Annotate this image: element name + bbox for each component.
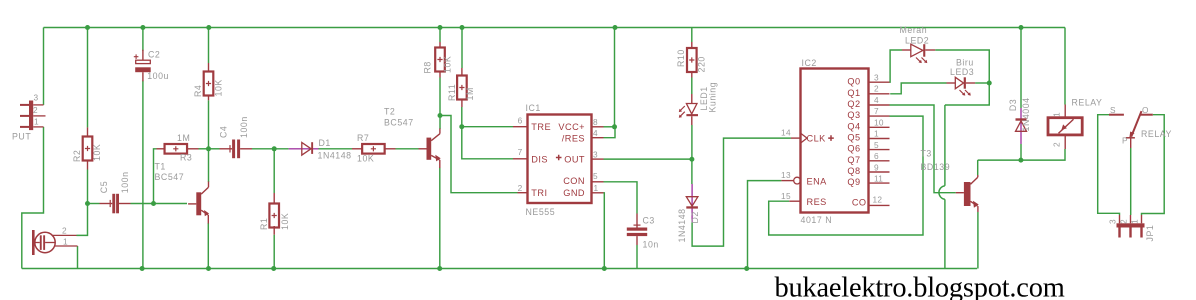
label O (contact) [1142,105,1149,115]
value 10n (C3) [643,240,659,250]
svg-text:bukaelektro.blogspot.com: bukaelektro.blogspot.com [775,273,1065,300]
svg-text:D2: D2 [690,211,700,223]
svg-text:Biru: Biru [956,58,974,68]
svg-text:14: 14 [781,128,791,138]
wire +V node up to rail [614,28,616,127]
pin 11 (IC2 Q9) [874,174,883,184]
transistor T1 BC547 [188,182,209,224]
svg-text:DIS: DIS [531,155,548,165]
IC1 pin name GND [563,188,585,198]
resistor R3 [165,144,188,154]
wire node down to IC1 pin 7 [462,127,513,159]
wire node to IC1 pin 6 [462,126,513,128]
IC2 pin name CLK [807,134,834,144]
junction at (141.6,268) [140,266,145,271]
svg-text:Merah: Merah [900,25,928,35]
IC1 pin name TRE [531,122,551,132]
wire node up to R3 left [154,149,157,204]
svg-text:1N4148: 1N4148 [318,151,352,161]
label IC1 [526,103,541,113]
resistor R4 leads [208,63,210,100]
wire relay contact P to JP1 pin 2 [1130,148,1132,215]
svg-text:8: 8 [593,117,598,127]
value 1N4004 (D3) [1021,97,1031,131]
junction at (208,148.3) [206,146,211,151]
capacitor C4 100n [220,140,253,159]
svg-text:100n: 100n [120,171,130,193]
resistor R2 leads [87,127,89,169]
junction at (691.4,158.75) [689,157,694,162]
pin 3 (PUT) [34,93,39,103]
wire IC2 pin 15 RES to Q3 pin 7 [769,116,923,235]
svg-text:7: 7 [518,147,523,157]
svg-text:PUT: PUT [12,132,31,142]
pin 9 (IC2 Q8) [874,163,879,173]
svg-text:R10: R10 [676,49,686,67]
pin 7 (IC2 Q3) [874,106,879,116]
svg-text:6: 6 [518,116,523,126]
svg-text:R2: R2 [72,150,82,162]
watermark bukaelektro.blogspot.com [775,273,1065,300]
value 10K (R8) [443,56,453,73]
wire rail end down to relay pin 1 [1064,28,1066,105]
value 100n (C4) [239,116,249,138]
label D1 [319,138,331,148]
IC2 pin stubs right [869,82,890,205]
label C2 [148,50,160,60]
IC2 pin names Q0-Q9 [847,77,860,187]
wire T1 collector riser [208,149,210,182]
diode D2 1N4148 [686,184,698,222]
junction at (439.2,268) [437,266,442,271]
diode D1 1N4148 [289,142,319,155]
junction at (208,268) [206,266,211,271]
junction at (461.5,27) [460,25,465,30]
label R11 [447,84,457,101]
IC2 ENA bubble [794,177,801,184]
svg-text:Q9: Q9 [847,177,860,187]
pin 5 (IC2 Q6) [874,140,879,150]
capacitor C2 100u electrolytic [134,50,151,82]
IC2 pin name RES [807,197,827,207]
svg-text:3: 3 [593,150,598,160]
label P (contact) [1122,136,1128,146]
svg-text:R8: R8 [423,61,433,73]
label R4 [193,85,203,97]
svg-text:7: 7 [874,106,879,116]
resistor R10 leads [691,42,693,78]
pin 15 (IC2) [781,191,791,201]
junction at (1020.5,27) [1019,25,1024,30]
diode D3 1N4004 [1016,108,1027,144]
junction at (603.8,268) [602,266,607,271]
IC1 pin name DIS [531,155,548,165]
pin 8 (IC1) [593,117,598,127]
wire IC2 pin 13 ENA to ground rail [748,181,782,269]
svg-text:Q2: Q2 [847,99,860,109]
svg-text:S: S [1110,105,1116,115]
wire R2 top (rail to R2) [87,28,89,128]
svg-text:9: 9 [874,163,879,173]
value Merah (LED2) [900,25,928,35]
pin 10 (IC2 Q4) [874,118,884,128]
svg-text:BC547: BC547 [384,118,414,128]
svg-text:Q0: Q0 [847,77,860,87]
pin 3 (JP1) [1108,219,1118,224]
value BD139 (T3) [921,162,951,172]
wire node down to R1 top [273,149,275,193]
wire T1 emitter to ground rail [207,223,209,269]
pin 13 (IC2) [781,170,791,180]
wire LED ground column to rail (with hop over T3 base) [944,105,946,186]
wire C3 bottom to ground rail [636,245,638,269]
resistor R4 [204,72,214,96]
op-amp timer IC1 NE555 box [528,115,592,204]
svg-text:220: 220 [697,56,707,72]
wire T3 collector node to relay pin 2 [978,149,1065,160]
svg-text:CLK: CLK [807,134,827,144]
svg-text:O: O [1142,105,1149,115]
wire LED3 cathode to node [975,82,989,84]
pin 3 (IC1) [593,150,598,160]
pin 3 (IC2 Q0) [874,73,879,83]
svg-text:Q7: Q7 [847,155,860,165]
junction at (988.75,82.5) [987,81,992,86]
value 100n (C5) [120,171,130,193]
value BC547 (T1) [155,172,185,182]
value 10K (R7) [357,154,374,164]
svg-text:10: 10 [874,118,884,128]
wire LED2 cathode down to LED ground node [935,50,989,83]
wire IC1 pin 3 OUT to LED node [604,158,692,160]
pin 2 (mic) [62,226,67,236]
pin 5 (IC1) [593,171,598,181]
label D2 [690,211,700,223]
value 4017N (IC2) [801,215,833,225]
wire LED1 cathode to OUT node [691,125,693,159]
wire R11 top (rail down) [461,28,463,69]
label C3 [643,216,655,226]
label R8 [423,61,433,73]
label T2 [384,107,395,117]
svg-text:Q8: Q8 [847,166,860,176]
label PUT [12,132,31,142]
capacitor C3 10n [627,214,647,246]
wire C4 right to D1 node [252,148,289,150]
label R2 [72,150,82,162]
wire relay contact O to JP1 pin 1 [1142,115,1165,215]
svg-text:15: 15 [781,191,791,201]
junction at (614.5,27) [613,25,618,30]
label R7 [357,133,369,143]
svg-text:R7: R7 [357,133,369,143]
label LED3 [950,67,974,77]
label R1 [259,218,269,230]
pin 6 (IC2 Q7) [874,151,879,161]
svg-text:Q1: Q1 [847,88,860,98]
svg-text:1: 1 [874,129,879,139]
svg-text:JP1: JP1 [1145,225,1155,242]
resistor R7 [362,144,385,154]
pin 1 (IC1) [594,183,599,193]
svg-text:1: 1 [1130,219,1140,224]
label C5 [99,181,109,193]
wire T3 collector riser [977,160,979,175]
label LED1 [699,86,709,110]
svg-text:ENA: ENA [807,177,828,187]
pin 1 (relay coil) [1052,112,1062,117]
IC2 pin name ENA [807,177,828,187]
wire left rail corner down to PUT pin 3 [43,28,45,105]
svg-text:5: 5 [874,140,879,150]
IC2 pin stubs left [781,138,800,201]
resistor R3 leads [157,148,199,150]
value 1M (R11) [465,87,475,100]
wire IC1 pin 4 up to +V node [604,127,616,138]
wire rail junction down to D3 [1020,28,1022,109]
svg-text:GND: GND [563,188,585,198]
LED2 Merah [902,44,935,63]
wire IC1 pin 5 to C3 [604,182,638,214]
wire T3 emitter to ground rail end [977,212,979,269]
pin 2 (PUT) [33,105,38,115]
wire IC2 pin 2 Q1 to LED3 [890,83,946,94]
svg-text:VCC+: VCC+ [558,122,585,132]
resistor R8 [435,48,445,72]
svg-text:10K: 10K [92,144,102,161]
wire D2 cathode to IC2 CLK pin 14 [692,138,791,246]
svg-text:1: 1 [1052,112,1062,117]
transistor T2 BC547 [419,129,441,169]
junction at (461.3,126.2) [459,124,464,129]
wire node to mic pin 2 [77,204,88,236]
svg-text:5: 5 [593,171,598,181]
svg-text:4: 4 [593,128,598,138]
wire IC1 pin 1 GND down to rail [603,193,606,269]
junction at (153,203) [151,201,156,206]
wire relay contact S to JP1 pin 3 [1098,115,1120,215]
svg-text:3: 3 [1108,219,1118,224]
svg-text:CO: CO [852,198,867,208]
IC1 pin name VCC+ [558,122,585,132]
svg-text:IC2: IC2 [802,58,817,68]
junction at (439.5,115) [438,113,443,118]
svg-text:1M: 1M [465,87,475,100]
svg-text:10K: 10K [280,213,290,230]
pin 4 (IC1) [593,128,598,138]
junction at (746.2,268) [744,266,749,271]
svg-text:C3: C3 [643,216,655,226]
svg-text:3: 3 [34,93,39,103]
IC1 origin cross [556,155,562,161]
svg-text:T2: T2 [384,107,395,117]
svg-text:IC1: IC1 [526,103,541,113]
svg-text:1N4004: 1N4004 [1021,97,1031,131]
value 220 (R10) [697,56,707,72]
svg-text:10n: 10n [643,240,659,250]
label D3 [1008,99,1018,111]
svg-text:1M: 1M [177,133,190,143]
pin 14 (IC2) [781,128,791,138]
label LED2 [905,36,929,46]
pin 2 (relay coil) [1052,142,1062,147]
svg-text:C2: C2 [148,50,160,60]
junction at (614,126.3) [612,124,617,129]
svg-text:Q3: Q3 [847,110,860,120]
transistor T3 BD139 [956,175,979,212]
IC1 pin name TRI [531,188,547,198]
wire PUT pin 1 down and left to ground rail [22,127,44,269]
pin 2 (JP1) [1119,219,1129,224]
svg-text:Q6: Q6 [847,144,860,154]
svg-text:100n: 100n [239,116,249,138]
junction at (87,203) [85,201,90,206]
pin 1 (mic) [63,237,68,247]
wire R1 bottom to ground rail [273,235,275,269]
wire bottom ground rail [22,268,977,270]
svg-text:/RES: /RES [562,134,585,144]
resistor R1 leads [273,193,275,235]
svg-text:6: 6 [874,151,879,161]
svg-text:TRI: TRI [531,188,547,198]
wire node to C4 left [209,148,220,150]
junction at (87,27) [85,25,90,30]
resistor R1 [269,204,279,228]
svg-text:R1: R1 [259,218,269,230]
svg-text:2: 2 [874,84,879,94]
junction at (142.4,27) [140,25,145,30]
svg-text:D1: D1 [319,138,331,148]
svg-text:11: 11 [874,174,883,184]
wire IC1 pin 8 to +V node [604,126,615,128]
label C4 [219,126,229,138]
wire R2 bottom to node [87,170,89,204]
LED3 Biru [947,77,976,95]
label R3 [180,153,192,163]
pin 4 (IC2 Q2) [874,95,879,105]
value 100u (C2) [147,71,169,81]
svg-text:C4: C4 [219,126,229,138]
svg-text:RELAY: RELAY [1072,97,1103,107]
svg-text:2: 2 [62,226,67,236]
resistor R7 leads [352,148,396,150]
svg-text:4: 4 [874,95,879,105]
label T1 [155,162,166,172]
junction at (1020.4,159.6) [1018,158,1023,163]
wire R10 top (rail down) [691,28,693,43]
pin 1 (JP1) [1130,219,1140,224]
svg-text:T3: T3 [921,149,932,159]
junction at (273.7,148.3) [272,146,277,151]
svg-text:TRE: TRE [531,122,551,132]
wire D3 anode to collector node [1020,144,1022,160]
label S (contact) [1110,105,1116,115]
svg-text:D3: D3 [1008,99,1018,111]
svg-text:OUT: OUT [564,155,585,165]
resistor R11 [457,76,467,100]
wire C2 bottom to ground rail [142,81,144,269]
value 10K (R1) [280,213,290,230]
wire R10 bottom to LED1 [691,78,693,95]
value Biru (LED3) [956,58,974,68]
wire T2 emitter to ground rail [439,168,441,269]
pin 2 (IC1) [518,183,523,193]
svg-text:RES: RES [807,197,827,207]
value 10K (R2) [92,144,102,161]
IC1 pin stubs [513,127,604,193]
wire R7 right to T2 base [396,148,419,150]
wire IC2 pin 4 Q2 to T3 base [890,105,956,193]
junction at (273.2,268) [271,266,276,271]
pin 1 (PUT) [34,117,39,127]
svg-text:Q4: Q4 [847,121,860,131]
svg-text:Kuning: Kuning [708,82,718,113]
wire T2 collector riser [439,116,441,130]
svg-text:R4: R4 [193,85,203,97]
resistor R11 leads [461,68,463,107]
wire trigger net: node to IC1 pin 2 [440,116,518,193]
pin 12 (IC2 CO) [873,195,883,205]
svg-text:LED3: LED3 [950,67,974,77]
svg-text:Q5: Q5 [847,132,860,142]
svg-text:2: 2 [518,183,523,193]
svg-text:13: 13 [781,170,791,180]
IC1 pin name OUT [564,155,585,165]
wire top +V rail [44,27,1066,29]
wire R4 top (rail down) [208,28,210,64]
IC2 pin name CO [852,198,867,208]
svg-text:R11: R11 [447,84,457,101]
pin 6 (IC1) [518,116,523,126]
wire R4 bottom to node [208,100,210,149]
svg-text:3: 3 [874,73,879,83]
relay contact switch [1109,111,1153,148]
wire R3 right to node [199,148,209,150]
value NE555 (IC1) [526,207,556,217]
junction at (208.3,27) [206,25,211,30]
wire R11 bottom to node [461,107,463,127]
label R10 [676,49,686,67]
pin 7 (IC1) [518,147,523,157]
value Kuning (LED1) [708,82,718,113]
label RELAY (coil) [1072,97,1103,107]
wire LED ground node down-left [945,83,989,105]
IC2 clock wedge [801,133,808,143]
label JP1 [1145,225,1155,242]
svg-text:BD139: BD139 [921,162,951,172]
microphone MIC1 (electret) [32,230,78,255]
svg-text:1: 1 [63,237,68,247]
value 1N4148 (D2) [677,208,687,242]
connector JP1 [1117,215,1145,238]
svg-text:BC547: BC547 [155,172,185,182]
value BC547 (T2) [384,118,414,128]
wire C5 right to T1 base node [131,203,188,205]
LED1 Kuning [679,94,698,125]
svg-text:12: 12 [873,195,883,205]
svg-text:2: 2 [33,105,38,115]
svg-text:100u: 100u [147,71,169,81]
svg-text:4017 N: 4017 N [801,215,833,225]
svg-text:10K: 10K [443,56,453,73]
svg-text:NE555: NE555 [526,207,556,217]
wire C2 top (rail to C2) [142,28,144,52]
svg-text:RELAY: RELAY [1141,129,1172,139]
capacitor C5 100n [100,194,131,214]
value 10K (R4) [214,79,224,96]
pin 1 (IC2 Q5) [874,129,879,139]
svg-text:CON: CON [563,176,585,186]
